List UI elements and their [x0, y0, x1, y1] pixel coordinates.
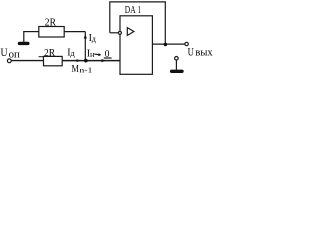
- svg-text:U: U: [1, 45, 8, 59]
- svg-text:2R: 2R: [44, 47, 56, 59]
- svg-text:М: М: [72, 64, 79, 75]
- svg-text:U: U: [188, 46, 195, 58]
- feedback wire top: [110, 2, 166, 44]
- underline under 0: [104, 57, 112, 59]
- svg-text:д: д: [92, 34, 96, 43]
- resistor R1 2R: [39, 27, 64, 38]
- svg-text:н: н: [90, 49, 95, 59]
- terminal Uop: [7, 59, 11, 63]
- svg-text:2R: 2R: [45, 17, 57, 29]
- wire: [23, 31, 39, 33]
- wire: [84, 32, 86, 61]
- resistor R2 2R: [44, 56, 63, 65]
- terminal Uout: [185, 42, 188, 45]
- svg-text:вых: вых: [195, 47, 212, 58]
- arrow In right: [102, 59, 106, 62]
- svg-text:0: 0: [105, 49, 110, 60]
- ground GND2: [170, 57, 184, 74]
- arrow Id right: [77, 59, 81, 62]
- junction node: [84, 59, 88, 63]
- svg-text:DA: DA: [125, 4, 136, 16]
- op-amp U1 box: [120, 16, 152, 75]
- svg-text:д: д: [70, 48, 75, 58]
- wire: [64, 31, 85, 33]
- inverting input wire: [110, 32, 119, 34]
- ground GND1: [18, 32, 30, 46]
- label underline 2R bottom: [39, 56, 44, 58]
- arrow glyph of In->0: [94, 53, 101, 57]
- svg-text:n-1: n-1: [79, 67, 93, 75]
- op-amp triangle: [127, 28, 134, 36]
- output junction dot: [164, 43, 168, 47]
- wire: [62, 60, 120, 62]
- output wire: [152, 43, 184, 45]
- arrow Id up: [84, 34, 87, 38]
- svg-text:1: 1: [138, 4, 141, 16]
- svg-text:оп: оп: [9, 49, 21, 60]
- input circle: [118, 31, 121, 34]
- wire: [11, 60, 44, 62]
